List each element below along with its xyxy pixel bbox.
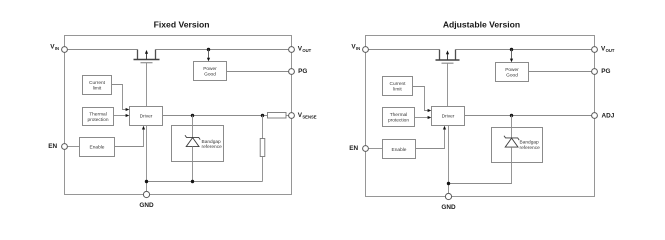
wire: rail to Power Good (arrow down, adj) [510, 50, 513, 63]
svg-text:GND: GND [441, 204, 456, 211]
svg-text:Thermal: Thermal [390, 112, 408, 118]
svg-text:reference: reference [202, 144, 223, 150]
block: Power Good [194, 62, 227, 81]
svg-text:Enable: Enable [90, 145, 105, 151]
svg-text:Fixed Version: Fixed Version [154, 20, 210, 30]
pass transistor Q (adj) [436, 50, 460, 64]
block: Bandgap reference (adj) [492, 128, 543, 163]
wire: internal ground rail [147, 181, 263, 183]
svg-text:protection: protection [388, 118, 409, 124]
IC outline box (fixed) [65, 36, 292, 195]
pass transistor Q (fixed) [134, 50, 160, 63]
svg-text:OUT: OUT [606, 48, 615, 53]
terminal PG (fixed) [289, 68, 308, 75]
svg-text:Driver: Driver [140, 114, 153, 120]
wire: Thermal protection to Driver (arrow) [114, 114, 130, 117]
block: Enable (adj) [383, 140, 416, 159]
zener diode D1 (bandgap) [185, 135, 200, 146]
svg-text:reference: reference [520, 145, 541, 151]
svg-text:Current: Current [89, 80, 106, 86]
wire: Power Good to PG pin (adj) [529, 71, 592, 73]
svg-text:OUT: OUT [302, 48, 311, 53]
wire: FET gate to Driver (adj) [447, 64, 449, 107]
IC outline box (adjustable) [366, 36, 595, 197]
resistor R1 (series, horizontal) [268, 113, 289, 119]
terminal GND (adj) [441, 193, 456, 210]
svg-text:IN: IN [356, 46, 360, 51]
block: Bandgap reference [172, 126, 224, 162]
svg-text:limit: limit [93, 86, 102, 92]
terminal VSENSE [289, 112, 317, 120]
wire: pass FET drain to VOUT [156, 49, 289, 51]
wire: EN pin to Enable [68, 146, 80, 148]
svg-text:Power: Power [505, 67, 519, 73]
wire: rail to Power Good (arrow down) [207, 50, 210, 62]
wire: bandgap top connection [192, 116, 194, 138]
wire: bandgap bottom to ground rail [192, 147, 194, 182]
svg-text:Enable: Enable [392, 147, 407, 153]
wire: VIN to pass FET source (adj) [369, 49, 440, 51]
node: bandgap tap on sense line [191, 114, 194, 117]
wire: Driver to GND rail [146, 126, 148, 192]
resistor R2 (divider, vertical) [260, 116, 265, 182]
terminal ADJ [592, 112, 615, 119]
svg-text:PG: PG [601, 68, 610, 75]
svg-text:ADJ: ADJ [602, 112, 615, 119]
svg-text:Current: Current [390, 81, 407, 87]
svg-text:GND: GND [139, 202, 154, 209]
svg-text:Bandgap: Bandgap [202, 139, 222, 145]
node: VOUT rail junction [207, 48, 210, 51]
block: Enable [80, 138, 115, 157]
block: Thermal protection (adj) [383, 108, 415, 127]
svg-text:Driver: Driver [442, 114, 455, 120]
wire: Power Good to PG pin [227, 71, 289, 73]
wire: bandgap bottom to ground rail (adj) [449, 147, 512, 183]
block: Current limit (adj) [383, 77, 413, 96]
node: bandgap tap on ADJ line [510, 114, 513, 117]
node: divider tap on sense line [261, 114, 264, 117]
svg-text:Power: Power [203, 66, 217, 72]
wire: Enable to Driver (arrow up, adj) [416, 126, 447, 149]
terminal EN (fixed) [48, 143, 67, 150]
svg-text:Good: Good [506, 72, 518, 78]
block: Driver [130, 107, 163, 126]
svg-text:Thermal: Thermal [89, 112, 107, 118]
terminal EN (adj) [349, 145, 368, 152]
block: Current limit [83, 76, 112, 95]
terminal VIN (adj) [351, 43, 368, 52]
svg-text:IN: IN [55, 46, 59, 51]
wire: Enable to Driver (arrow up) [115, 126, 146, 147]
block: Power Good (adj) [496, 63, 529, 82]
svg-text:PG: PG [298, 68, 307, 75]
svg-text:SENSE: SENSE [302, 115, 316, 120]
svg-text:EN: EN [349, 145, 358, 152]
wire: Driver to VSENSE line [163, 115, 268, 117]
zener diode D1 (bandgap, adj) [504, 136, 519, 147]
wire: VIN to pass FET source [68, 49, 138, 51]
svg-text:EN: EN [48, 143, 57, 150]
node: bandgap ground junction [191, 180, 194, 183]
block: Driver (adj) [432, 107, 465, 126]
wire: Current limit to Driver (arrow, adj) [413, 87, 432, 113]
wire: Driver to ADJ line [465, 115, 592, 117]
terminal VOUT (adj) [592, 45, 615, 53]
wire: Current limit to Driver (arrow) [112, 85, 130, 112]
wire: bandgap top connection (adj) [511, 116, 513, 138]
wire: Thermal protection to Driver (arrow, adj) [415, 116, 432, 119]
svg-text:Good: Good [204, 71, 216, 77]
block: Thermal protection [83, 108, 114, 126]
terminal PG (adj) [592, 68, 611, 75]
terminal VIN (fixed) [50, 43, 67, 52]
terminal GND (fixed) [139, 191, 154, 208]
svg-text:protection: protection [87, 117, 108, 123]
terminal VOUT (fixed) [289, 45, 312, 53]
wire: EN pin to Enable (adj) [369, 148, 383, 150]
wire: pass FET drain to VOUT (adj) [456, 49, 592, 51]
svg-text:limit: limit [393, 87, 402, 93]
wire: FET gate to Driver [146, 63, 148, 107]
node: VOUT rail junction (adj) [510, 48, 513, 51]
svg-text:Adjustable Version: Adjustable Version [443, 20, 520, 30]
node: ground rail / GND junction [145, 180, 148, 183]
wire: Driver to GND rail (adj) [448, 126, 450, 194]
node: ground rail junction (adj) [447, 182, 450, 185]
svg-text:Bandgap: Bandgap [520, 139, 540, 145]
